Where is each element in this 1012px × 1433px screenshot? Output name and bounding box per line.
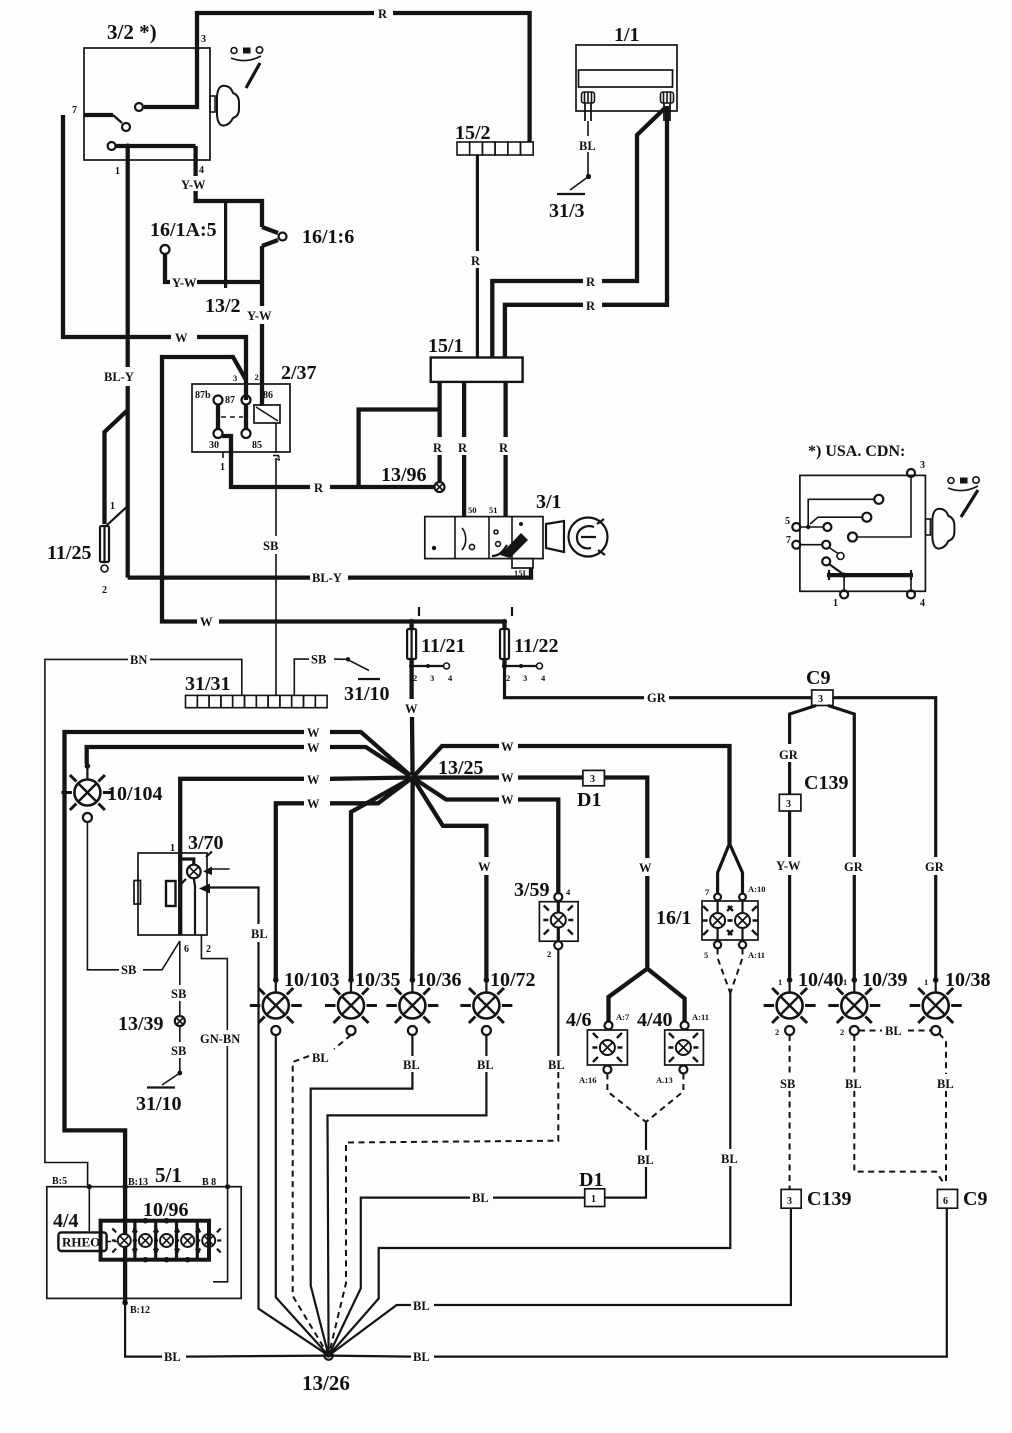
instrument cluster 5/1 box bbox=[47, 1187, 241, 1299]
svg-text:R: R bbox=[586, 299, 596, 313]
fuse 11/22 bbox=[511, 607, 513, 616]
svg-text:GR: GR bbox=[925, 860, 945, 874]
wire W line3 to switch 3/70 bbox=[330, 778, 413, 779]
svg-text:16/1:6: 16/1:6 bbox=[302, 226, 354, 248]
svg-text:2: 2 bbox=[102, 585, 107, 596]
svg-text:A:11: A:11 bbox=[692, 1012, 709, 1022]
wire R from 1/1 right terminal (outer) bbox=[602, 106, 667, 305]
svg-text:BL: BL bbox=[403, 1058, 420, 1072]
switch 3/70 lamp bbox=[187, 865, 201, 879]
svg-text:87: 87 bbox=[225, 395, 235, 406]
wire BL from 10/72 to node 13/26 bbox=[485, 1035, 487, 1056]
svg-text:13/39: 13/39 bbox=[118, 1013, 164, 1035]
lamp 10/35 bbox=[348, 977, 354, 983]
svg-text:3/70: 3/70 bbox=[188, 832, 224, 854]
svg-text:3: 3 bbox=[787, 1196, 792, 1207]
svg-text:BL: BL bbox=[312, 1051, 329, 1065]
pin 7 of USA switch bbox=[792, 541, 800, 549]
contact bar of USA switch bbox=[827, 573, 913, 577]
wire BL-Y from 3/1 to switch wire bbox=[348, 568, 531, 578]
lamp 10/96 no5 bbox=[196, 1229, 221, 1253]
wire W from node to lamp 10/35 bbox=[351, 778, 413, 981]
fuse box 15/1 bbox=[431, 358, 523, 382]
rotation arc of USA switch bbox=[948, 478, 954, 484]
wire BL from D1 to node 13/26 bbox=[493, 1196, 585, 1198]
svg-text:2: 2 bbox=[547, 949, 551, 959]
moving contact of USA switch bbox=[822, 557, 830, 565]
svg-text:SB: SB bbox=[171, 1044, 186, 1058]
wire W line1 to cluster B:13 bbox=[330, 732, 413, 778]
wire R output 3 of 15/1 bbox=[503, 382, 507, 437]
svg-text:31/10: 31/10 bbox=[136, 1093, 182, 1115]
svg-text:BL-Y: BL-Y bbox=[104, 370, 134, 384]
svg-text:13/26: 13/26 bbox=[302, 1371, 350, 1395]
svg-text:16/1A:5: 16/1A:5 bbox=[150, 219, 217, 241]
svg-text:Y-W: Y-W bbox=[247, 309, 272, 323]
wire SB from 13/39 to ground 31/10 bbox=[179, 1026, 181, 1042]
svg-text:6: 6 bbox=[184, 944, 189, 955]
svg-text:SB: SB bbox=[121, 963, 136, 977]
switch 3/2 USA version box bbox=[800, 475, 926, 591]
svg-text:B:13: B:13 bbox=[128, 1177, 148, 1188]
svg-text:W: W bbox=[307, 741, 320, 755]
svg-text:11/22: 11/22 bbox=[514, 635, 558, 657]
svg-text:B:5: B:5 bbox=[52, 1176, 67, 1187]
switch 3/2 contact from pin 3 bbox=[144, 48, 197, 107]
wire BL dashed from 3/59 to node 13/26 bbox=[557, 949, 559, 1056]
svg-text:BN: BN bbox=[130, 653, 147, 667]
svg-text:10/96: 10/96 bbox=[143, 1199, 189, 1221]
wire BL from C9 to node 13/26 bbox=[434, 1208, 947, 1356]
splice 13/2 vertical bar bbox=[224, 201, 227, 288]
lamp 10/72 bbox=[484, 977, 490, 983]
svg-text:D1: D1 bbox=[577, 789, 601, 811]
relay feed loop wire from pin area to fuse row (W) bbox=[162, 357, 246, 622]
contact row B of USA switch bbox=[862, 513, 871, 522]
svg-text:3/1: 3/1 bbox=[536, 491, 562, 513]
svg-text:B:12: B:12 bbox=[130, 1305, 150, 1316]
relay 2/37 box bbox=[192, 384, 290, 452]
svg-text:W: W bbox=[307, 773, 320, 787]
svg-text:31/31: 31/31 bbox=[185, 673, 231, 695]
fuse holder 1/1 box bbox=[576, 45, 677, 111]
pin 4 of USA switch bbox=[907, 590, 915, 598]
lamp 10/96 no4 bbox=[175, 1229, 200, 1263]
wire Y-W from C139 to lamp 10/40 bbox=[788, 811, 791, 857]
svg-text:SB: SB bbox=[171, 987, 186, 1001]
wire BL dashed from 16/1 to node 13/26 bbox=[718, 949, 731, 994]
svg-text:C139: C139 bbox=[807, 1188, 851, 1210]
wire R from switch 3/2 pin 3 to fuse box 15/2 bbox=[197, 13, 374, 50]
wire SB from 3/70 pin 6 to connector 13/39 bbox=[179, 941, 181, 985]
svg-text:1: 1 bbox=[778, 977, 782, 987]
svg-text:13/96: 13/96 bbox=[381, 464, 427, 486]
pin 1 of USA switch bbox=[840, 590, 848, 598]
lamp 10/38 bbox=[933, 977, 939, 983]
svg-text:W: W bbox=[200, 615, 213, 629]
node 13/26 bbox=[324, 1351, 332, 1359]
svg-text:BL: BL bbox=[251, 927, 268, 941]
lever of USA switch bbox=[961, 490, 978, 517]
svg-text:D1: D1 bbox=[579, 1169, 603, 1191]
svg-text:R: R bbox=[314, 481, 324, 495]
svg-text:SB: SB bbox=[780, 1077, 795, 1091]
svg-text:GR: GR bbox=[844, 860, 864, 874]
terminal bolt left of 1/1 bbox=[582, 92, 595, 121]
wire BL dashed from 10/39 to connector C9 bbox=[853, 1035, 855, 1074]
fuse 11/25 bbox=[100, 526, 109, 562]
svg-text:1: 1 bbox=[110, 501, 115, 512]
wire W from node to lamp 10/72 bbox=[413, 778, 487, 858]
svg-text:1: 1 bbox=[591, 1194, 596, 1205]
lamps 16/1 feed split bbox=[718, 844, 730, 895]
svg-text:1/1: 1/1 bbox=[614, 24, 640, 46]
svg-text:11/21: 11/21 bbox=[421, 635, 465, 657]
wire R from 15/2 to fuse box 15/1 bbox=[476, 155, 479, 251]
svg-text:GN-BN: GN-BN bbox=[200, 1032, 240, 1046]
svg-text:BL: BL bbox=[721, 1152, 738, 1166]
svg-text:W: W bbox=[501, 740, 514, 754]
terminal bolt right of 1/1 bbox=[661, 92, 674, 121]
wire GR from C9 to lamp 10/39 bbox=[828, 706, 854, 858]
svg-text:SB: SB bbox=[311, 653, 326, 667]
svg-text:B 8: B 8 bbox=[202, 1177, 216, 1188]
wire W from node to lamp 3/59 bbox=[413, 778, 499, 800]
svg-text:15/2: 15/2 bbox=[455, 122, 491, 144]
rotation arc 0-0 of switch 3/2 bbox=[231, 48, 237, 54]
wire W line2 to lamp 10/104 bbox=[330, 747, 413, 778]
pin B:12 bbox=[122, 1300, 128, 1306]
lamps 4/6 and 4/40 feed split bbox=[609, 969, 648, 1022]
svg-text:30: 30 bbox=[209, 440, 219, 451]
wire W from node to lamp 10/36 bbox=[410, 778, 415, 981]
svg-text:10/38: 10/38 bbox=[945, 969, 991, 991]
svg-text:4: 4 bbox=[920, 598, 925, 609]
svg-text:C139: C139 bbox=[804, 772, 848, 794]
svg-text:2: 2 bbox=[840, 1027, 844, 1037]
SECTION-LAMPS bbox=[250, 844, 766, 1356]
svg-text:BL-Y: BL-Y bbox=[312, 571, 342, 585]
wire Y-W down from 16/1:6 to relay coil bbox=[260, 246, 264, 306]
svg-text:10/39: 10/39 bbox=[862, 969, 908, 991]
svg-text:3/2 *): 3/2 *) bbox=[107, 20, 157, 44]
svg-text:R: R bbox=[499, 441, 509, 455]
wire pin 4 of 3/2 down (Y-W) bbox=[193, 146, 197, 176]
SECTION-MIDDLE bbox=[45, 607, 812, 1356]
svg-text:1: 1 bbox=[833, 598, 838, 609]
svg-text:10/104: 10/104 bbox=[107, 783, 163, 805]
svg-text:R: R bbox=[586, 275, 596, 289]
ground 31/3 bbox=[586, 174, 591, 179]
svg-text:W: W bbox=[307, 726, 320, 740]
svg-text:BL: BL bbox=[845, 1077, 862, 1091]
svg-text:R: R bbox=[458, 441, 468, 455]
wire BL from 1/1 to ground 31/3 bbox=[587, 121, 589, 136]
svg-text:BL: BL bbox=[472, 1191, 489, 1205]
wire SB from 10/104 to switch 3/70 pin 6 bbox=[87, 822, 119, 970]
switch 3/70 internal feed bbox=[178, 853, 182, 935]
svg-text:5: 5 bbox=[704, 950, 708, 960]
svg-text:3: 3 bbox=[233, 373, 237, 383]
svg-text:BL: BL bbox=[885, 1024, 902, 1038]
svg-text:R: R bbox=[471, 254, 481, 268]
switch 3/70 lamp output to pin 2 bbox=[194, 878, 195, 935]
svg-text:11/25: 11/25 bbox=[47, 542, 91, 564]
svg-text:1: 1 bbox=[924, 977, 928, 987]
relay contact 87b bbox=[214, 396, 223, 405]
fuse 11/21 spare pins 2 3 4 bbox=[409, 663, 414, 668]
svg-text:A:10: A:10 bbox=[748, 884, 765, 894]
lamp 10/39 bbox=[852, 977, 858, 983]
wire B:8 internal bbox=[213, 1187, 228, 1282]
wire R output 1 of 15/1 with jog to relay feed bbox=[437, 382, 441, 437]
svg-text:85: 85 bbox=[252, 440, 262, 451]
wire B:13 through lamps bbox=[123, 1187, 127, 1234]
svg-text:3: 3 bbox=[920, 460, 925, 471]
svg-text:3: 3 bbox=[523, 673, 527, 683]
svg-text:A:11: A:11 bbox=[748, 950, 765, 960]
switch 3/2 wiper from pin 7 bbox=[84, 113, 113, 117]
ground 31/10 top bbox=[334, 659, 369, 670]
lamp 10/40 bbox=[787, 977, 793, 983]
relay contact bars bbox=[218, 404, 246, 429]
connector C9 lower pin 6 bbox=[937, 1189, 957, 1208]
svg-text:BL: BL bbox=[413, 1350, 430, 1364]
key symbol of 3/1 bbox=[546, 521, 564, 552]
svg-text:W: W bbox=[639, 861, 652, 875]
relay contact 87 bbox=[242, 396, 251, 405]
svg-text:W: W bbox=[501, 771, 514, 785]
svg-text:6: 6 bbox=[943, 1196, 948, 1207]
svg-text:Y-W: Y-W bbox=[172, 276, 197, 290]
svg-text:3: 3 bbox=[818, 694, 823, 705]
svg-text:4/6: 4/6 bbox=[566, 1009, 592, 1031]
svg-text:3: 3 bbox=[786, 799, 791, 810]
lamp 10/96 no1 bbox=[112, 1218, 137, 1263]
lamp 10/103 bbox=[273, 977, 279, 983]
svg-text:A:7: A:7 bbox=[616, 1012, 630, 1022]
svg-text:1: 1 bbox=[115, 166, 120, 177]
wire Y-W from 16/1A:5 bbox=[165, 254, 170, 282]
svg-text:W: W bbox=[405, 702, 418, 716]
knob of switch 3/2 bbox=[210, 86, 239, 126]
connector C139 lower pin 3 bbox=[781, 1189, 801, 1208]
svg-text:BL: BL bbox=[164, 1350, 181, 1364]
wire SB dashed from 10/40 to connector C139 bbox=[789, 1035, 791, 1074]
svg-text:13/2: 13/2 bbox=[205, 295, 241, 317]
wire BL dashed from 10/38 to connector C9 bbox=[939, 1034, 946, 1075]
wire pin 1 of 3/2 down (BL-Y) bbox=[126, 146, 130, 367]
svg-text:7: 7 bbox=[72, 105, 77, 116]
svg-text:3: 3 bbox=[430, 673, 434, 683]
lamp 10/96 no3 bbox=[154, 1218, 179, 1263]
svg-text:1: 1 bbox=[220, 462, 225, 473]
contact row A of USA switch bbox=[874, 495, 883, 504]
wire W from fuse 11/21 down to node 13/25 bbox=[409, 666, 413, 699]
svg-text:10/36: 10/36 bbox=[416, 969, 462, 991]
relay armature dashed bbox=[221, 416, 243, 418]
wire BL from C139 to node 13/26 bbox=[434, 1208, 791, 1305]
connector D1 pin 3 bbox=[583, 770, 605, 785]
relay contact 30 bbox=[214, 429, 223, 438]
lamp 10/104 bbox=[85, 763, 91, 769]
svg-text:87b: 87b bbox=[195, 390, 211, 401]
svg-text:A:16: A:16 bbox=[579, 1075, 596, 1085]
headlamp switch 3/2 box bbox=[84, 48, 210, 160]
wire BL from 3/70 lamp to node 13/26 bbox=[208, 888, 259, 925]
ground 31/10 bottom bbox=[177, 1071, 182, 1076]
svg-text:A.13: A.13 bbox=[656, 1075, 673, 1085]
svg-text:31/10: 31/10 bbox=[344, 683, 390, 705]
wire BL dashed from 4/6 4/40 to connector D1 bbox=[607, 1074, 646, 1123]
node 13/25 bbox=[409, 774, 417, 782]
relay coil wire SB down to ground strip 31/31 bbox=[275, 423, 277, 536]
svg-text:31/3: 31/3 bbox=[549, 200, 585, 222]
svg-text:3/59: 3/59 bbox=[514, 879, 550, 901]
svg-text:10/40: 10/40 bbox=[798, 969, 844, 991]
switch 3/70 arrows bbox=[210, 868, 230, 870]
wire R output 2 of 15/1 bbox=[462, 382, 466, 437]
wire BN from ground strip to instrument cluster B:5 bbox=[150, 659, 242, 695]
relay contact 85 pin bbox=[242, 429, 251, 438]
svg-text:RHEO: RHEO bbox=[62, 1235, 100, 1250]
wire from pin 7 down left side (W) bbox=[63, 115, 171, 337]
svg-text:C9: C9 bbox=[806, 667, 830, 689]
relay output wire R to splice 13/96 bbox=[222, 436, 310, 487]
SECTION-TOPRIGHT bbox=[128, 24, 980, 609]
wire BL dashed between 10/39 and 10/38 bbox=[859, 1030, 882, 1032]
svg-text:Y-W: Y-W bbox=[776, 859, 801, 873]
svg-text:*) USA. CDN:: *) USA. CDN: bbox=[808, 443, 905, 460]
lamp 10/96 no2 bbox=[133, 1218, 158, 1263]
svg-text:C9: C9 bbox=[963, 1188, 987, 1210]
svg-text:W: W bbox=[501, 793, 514, 807]
svg-text:4/4: 4/4 bbox=[53, 1210, 79, 1232]
svg-text:R: R bbox=[378, 7, 388, 21]
svg-text:50: 50 bbox=[468, 505, 477, 515]
svg-text:10/35: 10/35 bbox=[355, 969, 401, 991]
svg-text:51: 51 bbox=[489, 505, 498, 515]
svg-text:BL: BL bbox=[637, 1153, 654, 1167]
switch 3/2 lower contact row bbox=[108, 142, 116, 150]
svg-text:BL: BL bbox=[477, 1058, 494, 1072]
svg-text:5/1: 5/1 bbox=[155, 1163, 182, 1187]
wire W from node through D1 to lamps 4/6 4/40 bbox=[413, 775, 499, 779]
svg-text:10/72: 10/72 bbox=[490, 969, 536, 991]
wire W from node to 16/1 bbox=[413, 746, 499, 778]
svg-text:W: W bbox=[175, 331, 188, 345]
interior marks of 3/1 bbox=[432, 546, 436, 550]
panel light switch 3/70 box bbox=[138, 853, 207, 935]
wire GN-BN from 3/70 pin 2 to cluster B:8 bbox=[201, 935, 227, 1030]
wire BL from 10/36 to node 13/26 bbox=[411, 1035, 413, 1056]
relay coil 86 bbox=[254, 405, 280, 423]
svg-text:Y-W: Y-W bbox=[181, 178, 206, 192]
svg-text:15/1: 15/1 bbox=[428, 335, 464, 357]
svg-text:BL: BL bbox=[413, 1299, 430, 1313]
SECTION-TOPLEFT bbox=[47, 7, 530, 695]
wire BL from 10/103 to node 13/26 bbox=[276, 1035, 329, 1356]
svg-text:GR: GR bbox=[647, 691, 667, 705]
svg-text:W: W bbox=[307, 797, 320, 811]
3/1 lower tab pin 15I bbox=[512, 559, 533, 568]
ignition switch 3/1 box bbox=[425, 517, 543, 559]
svg-text:4/40: 4/40 bbox=[637, 1009, 673, 1031]
svg-text:2: 2 bbox=[506, 673, 510, 683]
svg-text:2/37: 2/37 bbox=[281, 362, 317, 384]
svg-text:BL: BL bbox=[548, 1058, 565, 1072]
svg-text:2: 2 bbox=[255, 372, 259, 382]
pin 5 of USA switch bbox=[792, 523, 800, 531]
wire W line4 to lamp 10/103 bbox=[330, 778, 413, 804]
lever of switch 3/2 bbox=[246, 63, 260, 88]
fuse 11/21 bbox=[418, 607, 420, 616]
SECTION-RIGHT bbox=[329, 667, 991, 1364]
wire SB from strip to ground 31/10 bbox=[294, 659, 309, 695]
knob of USA switch bbox=[925, 509, 954, 549]
svg-text:3: 3 bbox=[590, 774, 595, 785]
svg-text:1: 1 bbox=[843, 977, 847, 987]
SECTION-BOTTOM bbox=[47, 1163, 350, 1395]
svg-text:R: R bbox=[433, 441, 443, 455]
fuse 11/25 taps bbox=[105, 410, 128, 524]
svg-text:3: 3 bbox=[201, 34, 206, 45]
wire BL from B:12 to node 13/26 bbox=[125, 1303, 162, 1357]
svg-text:GR: GR bbox=[779, 748, 799, 762]
connector 13/39 bbox=[175, 1016, 185, 1026]
svg-text:86: 86 bbox=[263, 390, 273, 401]
wire GR from C9 to lamp 10/38 bbox=[833, 698, 936, 857]
relay pin 1 stub bbox=[222, 452, 224, 458]
svg-text:7: 7 bbox=[786, 535, 791, 546]
wire BL dashed from 10/35 to node 13/26 bbox=[334, 1035, 351, 1049]
svg-text:5: 5 bbox=[785, 516, 790, 527]
svg-text:10/103: 10/103 bbox=[284, 969, 340, 991]
svg-text:W: W bbox=[478, 860, 491, 874]
lamp unit 16/1 bbox=[714, 894, 721, 901]
connector 16/1:6 bbox=[262, 227, 278, 246]
svg-text:16/1: 16/1 bbox=[656, 907, 692, 929]
svg-text:2: 2 bbox=[775, 1027, 779, 1037]
svg-text:4: 4 bbox=[199, 165, 204, 176]
svg-text:BL: BL bbox=[579, 139, 596, 153]
wire GR from C9 to connector C139 bbox=[790, 706, 816, 745]
wire GR from fuse 11/22 to connector C9 bbox=[505, 666, 645, 698]
fuse 11/22 spare pins 2 3 4 bbox=[502, 663, 507, 668]
lamp 10/36 bbox=[410, 977, 416, 983]
svg-text:SB: SB bbox=[263, 539, 278, 553]
wire R from 1/1 right terminal (inner) bbox=[602, 108, 665, 281]
svg-text:2: 2 bbox=[206, 944, 211, 955]
pin 3 of USA switch bbox=[907, 469, 915, 477]
switch 3/70 resistor bbox=[166, 881, 176, 906]
svg-text:BL: BL bbox=[937, 1077, 954, 1091]
svg-text:1: 1 bbox=[170, 843, 175, 854]
